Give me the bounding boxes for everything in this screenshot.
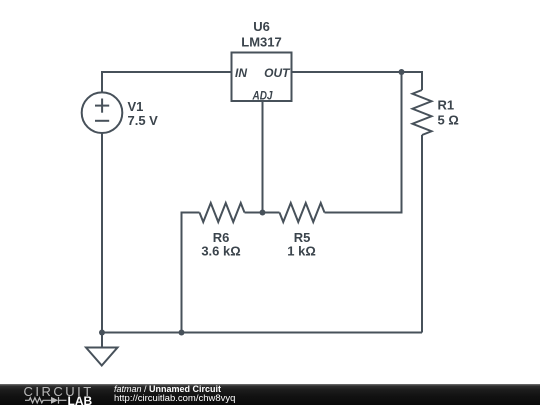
resistor R1 — [413, 90, 432, 135]
wire from R5 left end to node B — [263, 212, 280, 214]
junction node B dot — [260, 210, 266, 216]
wire from V1 plus terminal up and right to U6 IN pin — [102, 72, 232, 93]
svg-text:5 Ω: 5 Ω — [438, 113, 459, 128]
svg-text:V1: V1 — [128, 99, 144, 114]
CircuitLab logo symbol (resistor + diode) — [25, 397, 67, 404]
wire from node B left to R6 right end — [245, 212, 263, 214]
wire from node A right and down to R1 top — [402, 72, 423, 90]
junction dot bottom rail at V1 — [99, 330, 105, 336]
svg-text:3.6 kΩ: 3.6 kΩ — [201, 244, 240, 259]
voltage source V1 — [82, 92, 123, 133]
svg-text:OUT: OUT — [264, 66, 291, 80]
ground — [86, 333, 118, 366]
wire from U6 OUT pin right to node A — [292, 71, 402, 73]
regulator U6 body — [232, 53, 292, 102]
footer bar — [0, 384, 540, 405]
resistor R6 — [200, 203, 245, 222]
svg-text:U6: U6 — [253, 19, 270, 34]
wire from R1 bottom down to bottom rail — [421, 135, 423, 333]
junction dot bottom rail at R6 branch — [179, 330, 185, 336]
bottom rail wire — [102, 332, 422, 334]
svg-text:R1: R1 — [438, 98, 455, 113]
svg-text:7.5 V: 7.5 V — [128, 113, 159, 128]
footer credit text — [114, 385, 235, 403]
wire from R6 left end down to bottom rail — [182, 213, 200, 333]
resistor R5 — [280, 203, 325, 222]
wire from U6 ADJ pin down to node B — [262, 101, 264, 213]
wire from V1 minus terminal down to bottom rail — [101, 133, 103, 333]
svg-text:ADJ: ADJ — [252, 88, 273, 102]
svg-text:LM317: LM317 — [241, 34, 281, 49]
svg-text:IN: IN — [235, 66, 247, 80]
svg-text:LAB: LAB — [68, 394, 93, 405]
svg-text:1 kΩ: 1 kΩ — [287, 244, 316, 259]
wire from node A down to R5 right end — [325, 72, 402, 213]
junction node A dot — [399, 69, 405, 75]
